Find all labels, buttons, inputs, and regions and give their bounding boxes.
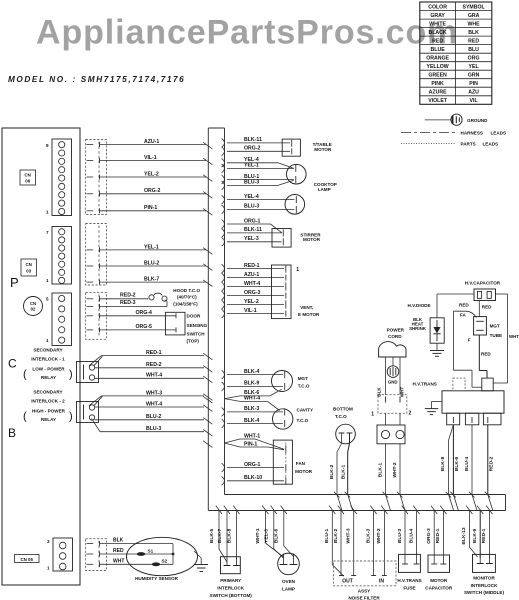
wire YEL-3 xyxy=(222,237,225,246)
svg-text:YEL-4: YEL-4 xyxy=(244,194,259,200)
svg-text:RED: RED xyxy=(468,38,479,44)
wire BLU-3 xyxy=(222,181,225,190)
wire RED-2 (tab3) xyxy=(487,425,489,495)
svg-text:B: B xyxy=(8,426,16,440)
svg-text:BLK-8: BLK-8 xyxy=(440,457,446,472)
wire BLK-8 (tab1) xyxy=(449,425,454,440)
svg-text:YEL-3: YEL-3 xyxy=(244,236,259,242)
svg-text:BLU-3: BLU-3 xyxy=(244,204,259,210)
svg-text:MOTOR: MOTOR xyxy=(303,237,321,242)
motor capacitor xyxy=(428,555,450,572)
ground at humidity sensor xyxy=(194,551,201,558)
wire RED (humidity) xyxy=(100,553,174,555)
wire WHT (power cord) xyxy=(399,357,401,395)
wire BLK (power cord) xyxy=(385,357,387,395)
svg-text:BLU-3: BLU-3 xyxy=(244,180,259,186)
svg-text:RED-2: RED-2 xyxy=(120,292,136,298)
svg-text:BOTTOM: BOTTOM xyxy=(333,407,353,412)
svg-text:WHT-3: WHT-3 xyxy=(146,390,162,396)
svg-text:VIOLET: VIOLET xyxy=(428,98,448,104)
svg-text:ORG-3: ORG-3 xyxy=(426,528,432,544)
svg-text:CAPACITOR: CAPACITOR xyxy=(425,586,453,591)
svg-text:INTERLOCK - 2: INTERLOCK - 2 xyxy=(31,399,65,404)
transformer top lug 1 xyxy=(453,378,465,391)
fan motor xyxy=(273,440,292,484)
svg-text:(: ( xyxy=(23,411,27,423)
wire RED-1 (vent motor) xyxy=(222,264,225,273)
wire BLU-1 xyxy=(222,175,225,184)
wire ORG-2 xyxy=(100,193,207,195)
monitor interlock switch xyxy=(473,554,496,572)
svg-text:PRIMARY: PRIMARY xyxy=(220,578,241,583)
wire WHT-4 (relay 2) xyxy=(95,406,205,408)
stirrer motor xyxy=(272,229,291,248)
wire WHT-3 xyxy=(351,506,357,514)
svg-text:MGT: MGT xyxy=(490,324,500,329)
svg-text:S1: S1 xyxy=(148,549,154,554)
svg-text:FUSE: FUSE xyxy=(403,586,415,591)
wire RED-1 (motor cap) xyxy=(440,506,446,514)
wire WHT-1 xyxy=(225,439,241,443)
svg-text:SHRINK: SHRINK xyxy=(409,326,427,331)
wire WHT-4 xyxy=(95,377,205,379)
svg-text:CN: CN xyxy=(30,301,36,306)
svg-text:1: 1 xyxy=(46,210,49,215)
wire ORG-3 (vent motor) xyxy=(222,291,225,300)
wire WHT-4 (vent motor) xyxy=(222,282,225,291)
svg-text:GND: GND xyxy=(388,379,398,384)
wire BLK-7 xyxy=(100,281,207,283)
svg-text:BLK-4: BLK-4 xyxy=(244,369,259,375)
wire BLK-6 xyxy=(225,396,241,399)
control PCB board outline xyxy=(2,128,80,585)
svg-text:CN: CN xyxy=(26,262,32,267)
cooktop lamp 2 xyxy=(285,195,305,215)
svg-text:WHT-2: WHT-2 xyxy=(392,462,398,477)
transformer tab 1 xyxy=(447,413,460,425)
svg-text:RED: RED xyxy=(482,304,492,309)
svg-text:BLU-1: BLU-1 xyxy=(324,529,330,544)
svg-text:WHT-4: WHT-4 xyxy=(146,373,162,379)
svg-text:ORG-2: ORG-2 xyxy=(144,188,161,194)
wire ORG-1 (fan) xyxy=(222,463,225,472)
svg-text:WHT-1: WHT-1 xyxy=(244,433,260,439)
power terminal block xyxy=(378,395,407,414)
svg-text:CAVITY: CAVITY xyxy=(297,408,314,413)
wire BLK-11 xyxy=(222,139,225,148)
svg-text:FAN: FAN xyxy=(296,461,306,466)
wire YEL-4 xyxy=(222,158,225,167)
wire BLK-1 (to bus) xyxy=(385,444,387,495)
magnetron thermal cutout xyxy=(272,371,293,392)
svg-text:T.C.O: T.C.O xyxy=(298,383,310,388)
magnetron MGT tube xyxy=(474,317,487,335)
svg-text:9: 9 xyxy=(46,143,49,148)
wire diode to capacitor xyxy=(436,294,438,318)
svg-text:INTERLOCK - 1: INTERLOCK - 1 xyxy=(31,357,65,362)
svg-text:RED: RED xyxy=(459,302,469,307)
svg-text:BLK-2: BLK-2 xyxy=(333,529,339,544)
legend ground symbol xyxy=(425,119,451,121)
legend harness leads xyxy=(401,131,456,133)
wire BLK-9 (monitor) xyxy=(477,506,483,514)
svg-text:(: ( xyxy=(23,369,27,381)
svg-text:MODEL NO. : SMH7175,7174,7176: MODEL NO. : SMH7175,7174,7176 xyxy=(8,75,185,84)
svg-text:F: F xyxy=(468,338,471,343)
oven lamp xyxy=(278,553,300,575)
svg-text:SYMBOL: SYMBOL xyxy=(462,4,485,10)
svg-text:WHE: WHE xyxy=(468,21,481,27)
wire BLU-3 (lamp 2) xyxy=(222,205,225,214)
svg-text:IN: IN xyxy=(379,579,384,585)
wire BLK-2 (filter) xyxy=(338,506,344,514)
svg-text:FA: FA xyxy=(460,313,467,318)
svg-text:CORD: CORD xyxy=(388,334,402,339)
svg-text:AZU: AZU xyxy=(468,90,479,96)
svg-text:YEL-1: YEL-1 xyxy=(144,244,159,250)
svg-text:MOTOR: MOTOR xyxy=(430,578,448,583)
wire WHT-2 (filter) xyxy=(381,506,387,514)
svg-text:PIN-1: PIN-1 xyxy=(144,205,157,211)
svg-text:RED-3: RED-3 xyxy=(120,300,136,306)
harness connector to CN03 xyxy=(86,224,107,286)
wire ORG-4 xyxy=(100,315,177,317)
connector CN03 (7 pins) xyxy=(52,227,72,285)
wire BLK-11 (stirrer) xyxy=(222,229,225,238)
door sensing switch xyxy=(165,312,185,335)
svg-text:WHT-3: WHT-3 xyxy=(346,528,352,543)
svg-text:BLK-2: BLK-2 xyxy=(329,465,335,480)
svg-text:SWITCH (BOTTOM): SWITCH (BOTTOM) xyxy=(210,593,253,598)
svg-text:LEADS: LEADS xyxy=(483,142,499,147)
bottom thermal cutout xyxy=(336,424,356,444)
label circle CN02 xyxy=(24,297,43,316)
svg-text:YEL-2: YEL-2 xyxy=(144,171,159,177)
svg-text:(TOP): (TOP) xyxy=(187,339,200,344)
primary interlock switch xyxy=(221,557,241,574)
svg-text:BLK-3: BLK-3 xyxy=(365,529,371,544)
svg-text:BLK: BLK xyxy=(376,387,381,397)
svg-text:P: P xyxy=(10,275,19,290)
svg-text:AZURE: AZURE xyxy=(429,90,447,96)
svg-text:LAMP: LAMP xyxy=(318,187,331,192)
svg-text:INTERLOCK: INTERLOCK xyxy=(471,583,498,588)
svg-text:VIL: VIL xyxy=(470,98,479,104)
svg-text:BLK-1: BLK-1 xyxy=(377,463,383,478)
wire WHT-2 (to bus) xyxy=(399,444,401,495)
humidity sensor ellipse xyxy=(127,537,198,575)
svg-text:WHT: WHT xyxy=(113,558,124,564)
svg-text:LOW - POWER: LOW - POWER xyxy=(32,366,65,371)
svg-text:BLK-3: BLK-3 xyxy=(244,406,259,412)
transformer tab 2 xyxy=(465,413,478,425)
svg-text:SWITCH (MIDDLE): SWITCH (MIDDLE) xyxy=(464,590,505,595)
svg-text:ORG-4: ORG-4 xyxy=(136,310,153,316)
svg-text:GRN: GRN xyxy=(468,72,480,78)
svg-text:TUBE: TUBE xyxy=(490,333,503,338)
sensor internal wiring xyxy=(172,544,174,565)
cooktop lamp 1 xyxy=(287,164,307,184)
legend parts leads xyxy=(401,143,456,145)
svg-text:): ) xyxy=(69,411,73,423)
svg-text:GROUND: GROUND xyxy=(467,118,488,123)
svg-text:GRAY: GRAY xyxy=(430,13,445,19)
svg-text:RELAY: RELAY xyxy=(41,417,56,422)
wire PIN-1 xyxy=(100,210,207,212)
transformer top lug 2 xyxy=(482,378,493,391)
svg-text:BLK-1: BLK-1 xyxy=(340,465,346,480)
connector CN06 (9 pins) xyxy=(52,139,72,216)
H.V. capacitor xyxy=(474,289,496,301)
wire WHT (humidity) xyxy=(100,563,174,565)
wire PIN-1 xyxy=(225,443,241,447)
relay secondary interlock 1 (low power) xyxy=(77,362,99,383)
wire BLU-1 xyxy=(329,506,335,514)
svg-text:BLU: BLU xyxy=(468,47,479,53)
wire BLK-5 xyxy=(216,506,222,514)
svg-text:BLU-4: BLU-4 xyxy=(408,529,414,544)
svg-text:BLK-9: BLK-9 xyxy=(244,381,259,387)
svg-text:): ) xyxy=(69,369,73,381)
vertical wiring bus xyxy=(208,128,505,511)
connector CN02 (5 pins) xyxy=(52,293,72,346)
svg-text:RELAY: RELAY xyxy=(41,375,56,380)
svg-text:RED: RED xyxy=(432,38,443,44)
wire BLK-10 xyxy=(222,476,225,485)
wire magnetron F to transformer xyxy=(478,335,480,371)
svg-text:BLK-8: BLK-8 xyxy=(226,529,232,544)
transformer tab 3 xyxy=(483,413,501,425)
svg-text:YEL-2: YEL-2 xyxy=(244,299,259,305)
svg-text:(104/158°F): (104/158°F) xyxy=(173,302,198,307)
svg-text:T.C.O: T.C.O xyxy=(297,418,309,423)
wire RED-1 (monitor) xyxy=(486,506,492,514)
wire BLU-2 xyxy=(100,265,207,267)
wire WHT capacitor to transformer xyxy=(496,293,508,295)
svg-text:GRA: GRA xyxy=(468,13,480,19)
svg-text:BLU-3: BLU-3 xyxy=(146,426,161,432)
svg-text:5: 5 xyxy=(46,297,49,302)
wire BLK-13 xyxy=(466,506,472,514)
svg-text:H.V.TRANS: H.V.TRANS xyxy=(413,382,437,387)
vent motor xyxy=(272,265,292,319)
svg-text:AZU-1: AZU-1 xyxy=(144,139,159,145)
svg-text:RED-1: RED-1 xyxy=(435,528,441,543)
ground wire and circle GND xyxy=(392,357,394,366)
svg-text:BLK-4: BLK-4 xyxy=(244,418,259,424)
svg-text:RED: RED xyxy=(481,352,491,357)
svg-text:BLK: BLK xyxy=(468,30,479,36)
svg-text:WHT: WHT xyxy=(400,387,405,398)
bus band crossing diagonals xyxy=(337,495,342,511)
wire ORG-5 xyxy=(100,329,177,331)
svg-text:BLK-7: BLK-7 xyxy=(217,529,223,544)
svg-text:CN 05: CN 05 xyxy=(20,557,33,562)
wire BLU-3 (fuse) xyxy=(402,506,408,514)
colour code table xyxy=(420,2,492,104)
svg-text:YEL-1: YEL-1 xyxy=(244,163,259,169)
svg-text:SWITCH: SWITCH xyxy=(187,331,206,336)
svg-text:ORG-3: ORG-3 xyxy=(244,290,261,296)
svg-text:BLK-7: BLK-7 xyxy=(144,277,159,283)
svg-text:HIGH - POWER: HIGH - POWER xyxy=(32,408,66,413)
svg-text:AppliancePartsPros.com: AppliancePartsPros.com xyxy=(36,14,458,52)
svg-text:BLK-13: BLK-13 xyxy=(461,527,467,544)
svg-text:RED-1: RED-1 xyxy=(244,263,260,269)
svg-text:SECONDARY: SECONDARY xyxy=(33,348,62,353)
svg-text:WHT-4: WHT-4 xyxy=(146,401,162,407)
svg-text:YELLOW: YELLOW xyxy=(426,64,448,70)
wire BLU-4 (fuse) xyxy=(413,506,419,514)
svg-text:HOOD T.C.O: HOOD T.C.O xyxy=(173,288,200,293)
svg-text:YEL-3: YEL-3 xyxy=(264,529,270,543)
svg-text:BLU-3: BLU-3 xyxy=(397,529,403,544)
svg-text:ORG-5: ORG-5 xyxy=(136,324,153,330)
svg-text:(40/70°C): (40/70°C) xyxy=(177,295,197,300)
wire ORG-2 xyxy=(222,147,225,156)
svg-text:BLK-6: BLK-6 xyxy=(454,457,460,472)
wire BLK (humidity) xyxy=(100,543,174,545)
svg-text:03: 03 xyxy=(26,269,31,274)
wire YEL-3 (oven lamp) xyxy=(271,506,277,514)
svg-text:ORG: ORG xyxy=(468,55,480,61)
svg-text:BLK-10: BLK-10 xyxy=(244,475,262,481)
svg-text:POWER: POWER xyxy=(387,327,405,332)
svg-text:ORG-1: ORG-1 xyxy=(244,218,261,224)
svg-text:WHT-4: WHT-4 xyxy=(244,281,260,287)
svg-text:SENSING: SENSING xyxy=(187,323,208,328)
svg-text:1: 1 xyxy=(371,412,374,418)
svg-text:SECONDARY: SECONDARY xyxy=(33,390,62,395)
svg-text:BLU-2: BLU-2 xyxy=(146,414,161,420)
svg-text:RED-1: RED-1 xyxy=(146,350,162,356)
svg-text:PARTS: PARTS xyxy=(461,142,476,147)
svg-text:OVEN: OVEN xyxy=(282,579,296,584)
svg-text:MGT: MGT xyxy=(298,376,308,381)
svg-text:BLK-9: BLK-9 xyxy=(472,529,478,544)
svg-text:VIL-1: VIL-1 xyxy=(244,308,257,314)
svg-text:H.V.DIODE: H.V.DIODE xyxy=(408,303,431,308)
svg-text:PIN-1: PIN-1 xyxy=(244,441,257,447)
svg-text:INTERLOCK: INTERLOCK xyxy=(217,586,244,591)
wire capacitor to magnetron FA xyxy=(478,301,480,317)
wire RED-3 (hood) xyxy=(100,306,168,308)
label box CN05 xyxy=(15,555,40,563)
svg-text:ORANGE: ORANGE xyxy=(426,55,449,61)
svg-text:RED: RED xyxy=(113,548,124,554)
wire WHT-3 xyxy=(89,396,102,406)
wire BLK-4 xyxy=(222,370,225,379)
svg-text:H.V.CAPACITOR: H.V.CAPACITOR xyxy=(465,281,501,286)
H.V. diode with heat shrink xyxy=(430,318,444,343)
svg-text:MOTOR: MOTOR xyxy=(314,147,332,152)
wire RED-2 (hood) xyxy=(100,298,149,300)
wire VIL-1 xyxy=(100,159,207,161)
svg-text:1: 1 xyxy=(46,278,49,283)
svg-text:ORG-1: ORG-1 xyxy=(244,462,261,468)
svg-text:BLK-6: BLK-6 xyxy=(274,529,280,544)
svg-text:LAMP: LAMP xyxy=(282,587,295,592)
ground under diode xyxy=(436,343,438,350)
wire WHT-4 (cavity) xyxy=(225,399,241,402)
svg-text:WHT-1: WHT-1 xyxy=(255,528,261,543)
label box CN03 xyxy=(21,259,37,276)
wire BLU-2 xyxy=(95,419,205,421)
svg-text:WHT-4: WHT-4 xyxy=(244,396,260,402)
svg-text:ASSY: ASSY xyxy=(358,589,371,594)
wire ORG-1 xyxy=(222,220,225,229)
svg-text:PIN: PIN xyxy=(469,81,478,87)
svg-text:COLOR: COLOR xyxy=(428,4,447,10)
svg-text:1: 1 xyxy=(296,267,299,273)
svg-text:MONITOR: MONITOR xyxy=(473,576,495,581)
svg-text:1: 1 xyxy=(47,566,50,571)
wire BLU-3 xyxy=(92,419,101,432)
svg-text:1: 1 xyxy=(46,338,49,343)
svg-text:2: 2 xyxy=(409,411,412,417)
svg-text:BLK-11: BLK-11 xyxy=(244,137,262,143)
svg-text:DOOR: DOOR xyxy=(187,314,201,319)
wire BLK-1 (bottom tco) xyxy=(349,433,351,444)
svg-text:RED-2: RED-2 xyxy=(146,362,162,368)
wire ORG-3 (motor cap) xyxy=(431,506,437,514)
svg-text:02: 02 xyxy=(31,307,36,312)
wire BLK-7 (primary) xyxy=(224,506,230,514)
wire BLU-4 (tab2) xyxy=(471,425,473,495)
svg-text:PINK: PINK xyxy=(431,81,444,87)
svg-text:BLK-5: BLK-5 xyxy=(209,529,215,544)
wire RED-2 xyxy=(95,367,205,369)
svg-text:CN: CN xyxy=(25,173,31,178)
assy noise filter xyxy=(333,561,396,586)
power cord connector block xyxy=(377,425,405,444)
wire RED-1 xyxy=(89,355,102,365)
ground at transformer xyxy=(432,401,443,403)
wire FA loop to transformer xyxy=(453,311,476,317)
wire AZU-1 xyxy=(100,144,207,146)
svg-text:OUT: OUT xyxy=(342,579,353,585)
svg-text:T.C.O: T.C.O xyxy=(335,414,347,419)
wire AZU-1 (vent motor) xyxy=(222,273,225,282)
svg-text:RED-1: RED-1 xyxy=(481,528,487,543)
hood T.C.O thermal cutout xyxy=(149,295,154,300)
harness connector to CN06 xyxy=(86,140,107,215)
H.V. transformer xyxy=(442,391,504,413)
svg-text:VIL-1: VIL-1 xyxy=(144,155,157,161)
turntable motor xyxy=(282,139,300,156)
svg-text:YEL: YEL xyxy=(469,64,480,70)
relay secondary interlock 2 (high power) xyxy=(77,402,99,423)
wire YEL-4 (lamp 2) xyxy=(222,195,225,204)
svg-text:MOTOR: MOTOR xyxy=(295,469,313,474)
svg-text:C: C xyxy=(8,357,17,371)
svg-text:S2: S2 xyxy=(162,559,168,564)
wire BLK-2 (bottom tco) xyxy=(341,433,343,444)
wire YEL-1 xyxy=(222,164,225,173)
wires from terminal block to connector xyxy=(385,413,387,425)
svg-text:LEADS: LEADS xyxy=(491,131,507,136)
connector CN05 (3 pins) xyxy=(53,538,73,571)
wire BLK-4 (cavity) xyxy=(222,419,225,428)
svg-text:VENT,: VENT, xyxy=(300,305,313,310)
svg-text:7: 7 xyxy=(46,230,49,235)
svg-text:RED-2: RED-2 xyxy=(488,456,494,471)
H.V. trans fuse xyxy=(399,554,421,572)
power cord plug xyxy=(379,342,406,357)
svg-text:HUMIDITY SENSOR: HUMIDITY SENSOR xyxy=(135,576,178,581)
svg-text:3: 3 xyxy=(47,539,50,544)
svg-text:BLK-11: BLK-11 xyxy=(244,227,262,233)
